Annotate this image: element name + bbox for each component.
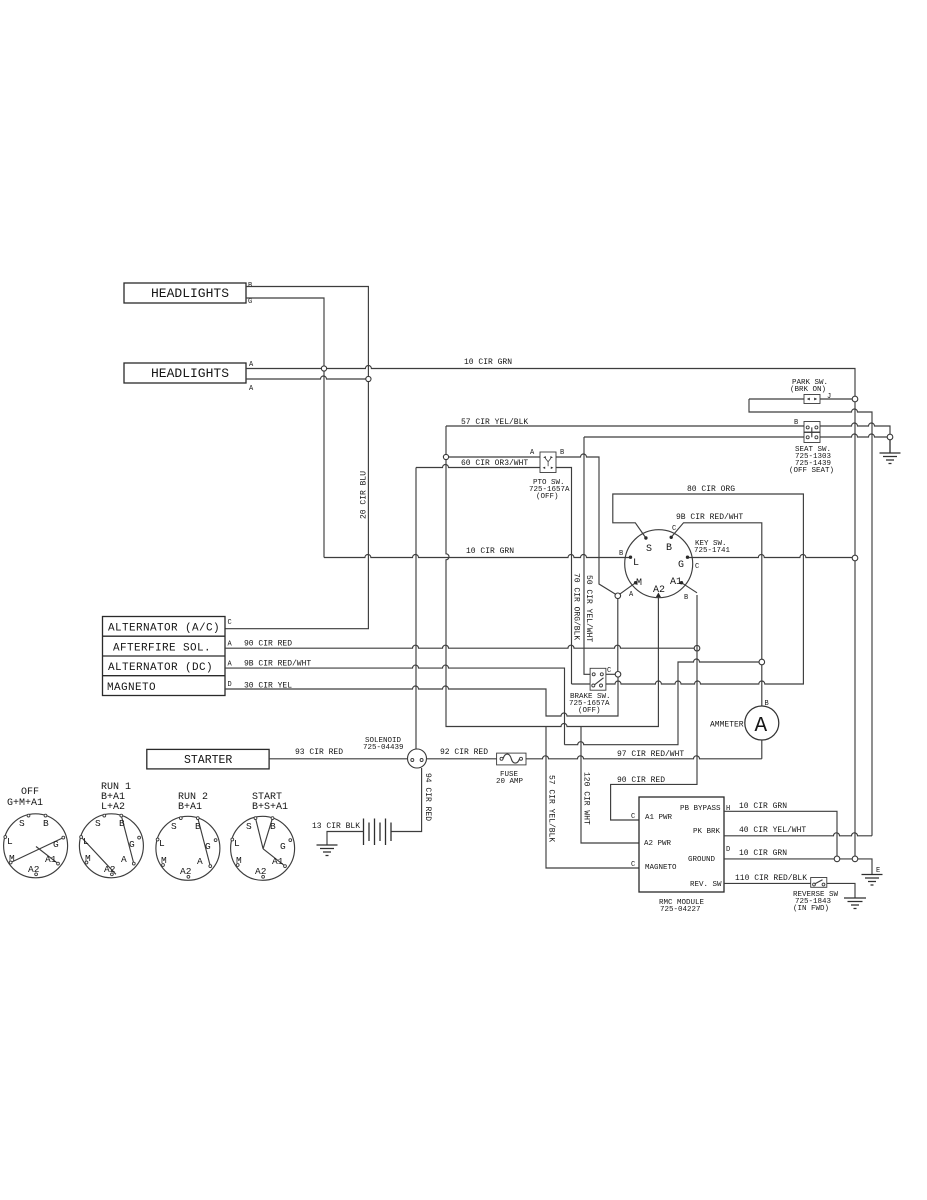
svg-text:S: S [95, 818, 101, 829]
PTO switch box [540, 452, 556, 473]
svg-text:E: E [876, 867, 880, 875]
svg-text:L: L [83, 836, 89, 847]
ammeter circle [745, 706, 779, 740]
svg-text:G: G [280, 841, 286, 852]
headlight box 1 [124, 283, 246, 303]
svg-text:G: G [129, 839, 135, 850]
svg-text:L: L [633, 558, 639, 569]
svg-text:94 CIR RED: 94 CIR RED [423, 773, 432, 821]
wire key G terminal right to 10 CIR GRN column [688, 555, 853, 558]
node brake C [615, 672, 621, 678]
svg-text:C: C [228, 619, 232, 627]
svg-text:J: J [827, 393, 831, 401]
wire PB BYPASS 10 CIR GRN [724, 811, 837, 856]
svg-text:93 CIR RED: 93 CIR RED [295, 748, 343, 757]
alternator stack boxes [103, 617, 226, 696]
svg-text:57 CIR YEL/BLK: 57 CIR YEL/BLK [547, 775, 556, 842]
svg-text:AFTERFIRE SOL.: AFTERFIRE SOL. [113, 643, 211, 655]
ground E [862, 875, 883, 886]
wire 60 CIR OR3/WHT from solenoid column to PTO bottom [416, 465, 540, 468]
wire 94 CIR RED solenoid to battery [391, 768, 422, 832]
svg-text:ALTERNATOR (A/C): ALTERNATOR (A/C) [108, 623, 220, 635]
svg-text:B: B [43, 818, 49, 829]
svg-text:110 CIR RED/BLK: 110 CIR RED/BLK [735, 874, 807, 883]
svg-text:50 CIR YEL/WHT: 50 CIR YEL/WHT [584, 575, 593, 642]
wire 13 CIR BLK battery to ground [327, 832, 364, 845]
wire 93 CIR RED starter to solenoid [269, 758, 407, 760]
headlight box 2 [124, 363, 246, 383]
svg-text:A2 PWR: A2 PWR [644, 840, 672, 848]
key switch M diagonal to node [620, 583, 636, 595]
svg-text:L: L [7, 836, 13, 847]
ground battery [317, 845, 338, 856]
svg-text:ALTERNATOR (DC): ALTERNATOR (DC) [108, 662, 213, 674]
wire 50 CIR YEL/WHT seat row lower [584, 434, 887, 437]
svg-text:A1: A1 [670, 577, 682, 588]
label SOLENOID 725-04439 [363, 737, 404, 752]
svg-text:PB BYPASS: PB BYPASS [680, 805, 721, 813]
key switch A1 diagonal down [682, 583, 698, 593]
svg-text:A1 PWR: A1 PWR [645, 814, 673, 822]
svg-text:B: B [195, 821, 201, 832]
svg-text:G: G [248, 298, 252, 306]
svg-text:L: L [234, 838, 240, 849]
battery cells [364, 819, 392, 846]
svg-text:10 CIR GRN: 10 CIR GRN [464, 358, 512, 367]
svg-text:G: G [205, 841, 211, 852]
wire 98 CIR RED/WHT : key B terminal right and down to ammeter node [671, 523, 762, 659]
svg-text:B: B [794, 419, 798, 427]
svg-text:G: G [678, 560, 684, 571]
node on B vertical at lower A wire [366, 376, 371, 381]
svg-text:725-04439: 725-04439 [363, 744, 404, 752]
svg-text:(IN FWD): (IN FWD) [793, 905, 829, 913]
svg-text:M: M [161, 855, 167, 866]
svg-text:A1: A1 [45, 854, 57, 865]
wire 50 CIR YEL/WHT vertical to brake switch left pin [584, 437, 590, 674]
svg-text:G+M+A1: G+M+A1 [7, 798, 43, 809]
ground seat switch [880, 440, 901, 464]
wire PTO B to M node diagonal [556, 454, 616, 594]
svg-text:L: L [159, 838, 165, 849]
svg-text:REV. SW: REV. SW [690, 881, 722, 889]
svg-text:90 CIR RED: 90 CIR RED [617, 776, 665, 785]
label REVERSE SW 725-1843 (IN FWD) [793, 891, 839, 913]
key switch circle [625, 530, 693, 598]
svg-text:A2: A2 [180, 866, 192, 877]
svg-text:HEADLIGHTS: HEADLIGHTS [151, 366, 229, 381]
svg-text:57 CIR YEL/BLK: 57 CIR YEL/BLK [461, 418, 528, 427]
svg-text:D: D [228, 681, 232, 689]
svg-text:B: B [119, 818, 125, 829]
svg-text:80 CIR ORG: 80 CIR ORG [687, 485, 735, 494]
svg-text:S: S [646, 544, 652, 555]
svg-text:20 AMP: 20 AMP [496, 778, 524, 786]
svg-text:(OFF): (OFF) [578, 707, 601, 715]
10 CIR GRN main column below park node [854, 402, 856, 856]
ammeter stub bottom [761, 740, 763, 759]
svg-text:S: S [246, 821, 252, 832]
svg-text:D: D [726, 846, 730, 854]
svg-text:A2: A2 [653, 585, 665, 596]
wire 20 CIR BLU : headlight1 B pin right, down to alternator A/C pin C [225, 287, 368, 629]
svg-text:C: C [631, 861, 635, 869]
node on G vertical at top A wire [321, 366, 326, 371]
ammeter stub top [761, 665, 763, 706]
wire 70 CIR ORG/BLK : PTO bottom right down to brake row [556, 468, 572, 685]
label BRAKE SW. 725-1657A (OFF) [569, 693, 611, 715]
svg-text:20 CIR BLU: 20 CIR BLU [360, 471, 369, 519]
svg-text:A: A [755, 715, 768, 738]
svg-text:MAGNETO: MAGNETO [645, 864, 677, 872]
svg-text:10 CIR GRN: 10 CIR GRN [739, 849, 787, 858]
wire 120 CIR WHT column to RMC A2 pin [581, 727, 639, 844]
svg-text:C: C [607, 667, 611, 675]
svg-text:PK BRK: PK BRK [693, 828, 721, 836]
svg-text:97 CIR RED/WHT: 97 CIR RED/WHT [617, 750, 684, 759]
node 90 CIR RED at A1 column [694, 645, 700, 651]
svg-text:120 CIR WHT: 120 CIR WHT [582, 772, 591, 825]
position circle OFF [4, 787, 68, 878]
node G row at 10 CIR GRN column [852, 555, 858, 561]
svg-text:10 CIR GRN: 10 CIR GRN [466, 547, 514, 556]
svg-text:A2: A2 [28, 864, 40, 875]
svg-text:B+S+A1: B+S+A1 [252, 802, 288, 813]
park switch wire row and jog down to 40 CIR YEL WHT column [749, 399, 872, 836]
label KEY SW. 725-1741 [694, 540, 731, 555]
svg-text:B: B [619, 550, 623, 558]
svg-text:A2: A2 [104, 864, 116, 875]
svg-text:B: B [270, 821, 276, 832]
wire PTO A feed [449, 456, 540, 458]
key terminal dots [629, 536, 689, 585]
wire 97 CIR RED/WHT fuse to ammeter bottom [526, 756, 762, 759]
svg-text:A1: A1 [272, 856, 284, 867]
svg-text:92 CIR RED: 92 CIR RED [440, 748, 488, 757]
wire 57 CIR YEL/BLK seat row upper [446, 423, 890, 434]
svg-text:GROUND: GROUND [688, 856, 716, 864]
svg-text:(OFF): (OFF) [536, 493, 559, 501]
svg-text:STARTER: STARTER [184, 754, 232, 767]
fuse box [497, 753, 526, 765]
svg-text:S: S [171, 821, 177, 832]
svg-text:C: C [631, 813, 635, 821]
node at park switch right on 10 CIR GRN column [852, 396, 858, 402]
svg-text:9B CIR RED/WHT: 9B CIR RED/WHT [244, 660, 311, 669]
wire GROUND row 10 CIR GRN to E ground [724, 859, 872, 874]
svg-text:(OFF SEAT): (OFF SEAT) [789, 467, 834, 475]
node M-A connector [615, 593, 621, 599]
svg-text:A: A [197, 856, 203, 867]
wire 30 CIR YEL row down to RMC magneto pin [225, 677, 618, 716]
svg-text:90 CIR RED: 90 CIR RED [244, 640, 292, 649]
svg-text:(BRK ON): (BRK ON) [790, 386, 826, 394]
wire 10 CIR GRN mid left : to key L terminal [324, 555, 631, 558]
svg-text:70 CIR ORG/BLK: 70 CIR ORG/BLK [572, 573, 581, 640]
arrow key A2 terminal [656, 593, 661, 598]
label PARK SW. (BRK ON) [790, 379, 828, 394]
starter box [147, 749, 269, 769]
node at seat ground junction [887, 434, 893, 440]
wire 57 CIR YEL/BLK lower column to RMC magneto pin [546, 727, 639, 869]
svg-text:L+A2: L+A2 [101, 802, 125, 813]
wire 40 CIR YEL/WHT PK BRK row [724, 833, 872, 836]
node 57 column at PTO A feed [443, 454, 448, 459]
wire 90 CIR RED row to node [225, 645, 694, 648]
svg-text:B: B [684, 594, 688, 602]
wire 80 CIR ORG and 70 loop : key S terminal to brake row [572, 494, 804, 684]
svg-text:A: A [121, 854, 127, 865]
position circle RUN 2 [156, 792, 220, 880]
svg-text:10 CIR GRN: 10 CIR GRN [739, 802, 787, 811]
svg-text:40 CIR YEL/WHT: 40 CIR YEL/WHT [739, 826, 806, 835]
position circle RUN 1 [79, 782, 143, 878]
svg-text:AMMETER: AMMETER [710, 721, 744, 730]
svg-text:M: M [636, 578, 642, 589]
svg-text:13 CIR BLK: 13 CIR BLK [312, 822, 360, 831]
svg-text:M: M [9, 853, 15, 864]
wire M node vertical to brake C node [617, 599, 619, 672]
svg-text:S: S [19, 818, 25, 829]
brake switch box [590, 668, 606, 690]
svg-text:M: M [236, 855, 242, 866]
node PB bypass at ground row [834, 856, 840, 862]
label SEAT SW. 725-1303 725-1439 (OFF SEAT) [789, 446, 834, 475]
svg-text:60 CIR OR3/WHT: 60 CIR OR3/WHT [461, 459, 528, 468]
svg-text:G: G [53, 839, 59, 850]
svg-text:A2: A2 [255, 866, 267, 877]
seat switch boxes with pins [804, 422, 820, 443]
label RMC MODULE 725-04227 [659, 899, 705, 914]
wire 57 CIR YEL/BLK vertical from seat row down and across to key A2 [446, 426, 658, 727]
label FUSE 20 AMP [496, 771, 524, 786]
solenoid circle [408, 749, 427, 768]
svg-text:OFF: OFF [21, 787, 39, 798]
svg-text:725-1741: 725-1741 [694, 547, 731, 555]
svg-text:MAGNETO: MAGNETO [107, 682, 156, 694]
wire 110 CIR RED/BLK REV SW row [724, 883, 855, 897]
node main column at ground row [852, 856, 858, 862]
wire 10 CIR GRN top : headlight2 A pin to park switch column [246, 366, 855, 397]
wire 98 CIR RED/WHT row down and over to ammeter branch [225, 659, 759, 745]
key terminal letters [633, 543, 684, 596]
park switch box [804, 395, 820, 404]
svg-text:HEADLIGHTS: HEADLIGHTS [151, 286, 229, 301]
svg-text:M: M [85, 853, 91, 864]
reverse switch box [811, 878, 827, 888]
wire 92 CIR RED solenoid to fuse [427, 758, 497, 760]
svg-text:B: B [666, 543, 672, 554]
node ammeter top branch [759, 659, 765, 665]
svg-text:C: C [695, 563, 699, 571]
wire brake C pin to node [606, 673, 615, 675]
RMC module box [639, 797, 724, 892]
position circle START [231, 792, 295, 880]
ground reverse switch [844, 898, 866, 909]
wire headlight2 lower A pin to 20 CIR BLU vertical [246, 376, 366, 379]
wire solenoid top column 60 CIR feed [415, 468, 417, 750]
svg-text:B: B [560, 449, 564, 457]
wire headlight1 G pin right and down to 10 CIR GRN row [246, 298, 324, 558]
label PTO SW. 725-1657A (OFF) [529, 479, 570, 501]
svg-text:9B CIR RED/WHT: 9B CIR RED/WHT [676, 513, 743, 522]
svg-text:B+A1: B+A1 [178, 802, 202, 813]
svg-text:C: C [672, 525, 676, 533]
wire A1 column down to RMC A1 pin [611, 595, 697, 820]
svg-text:725-04227: 725-04227 [660, 906, 701, 914]
